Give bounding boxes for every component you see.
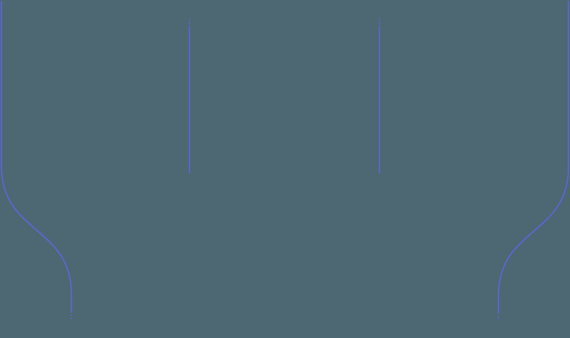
wire left S-curve tail fade dots (70, 315, 72, 319)
wire middle-left vertical line (188, 27, 190, 174)
wire right S-curve tail fade dots (497, 316, 499, 319)
wire left edge S-curve (1, 1, 71, 313)
wire right edge S-curve (498, 1, 568, 314)
wire middle-right fade-in dots (378, 18, 380, 26)
wire middle-left fade-in dots (188, 18, 190, 26)
wire middle-right vertical line (378, 27, 380, 174)
